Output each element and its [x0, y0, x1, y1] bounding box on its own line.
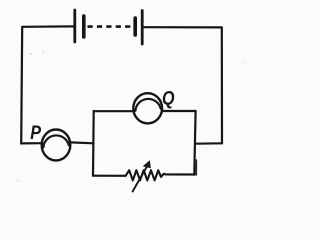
faint paper speckle [17, 180, 19, 182]
wire box top branch right [162, 110, 195, 112]
faint paper speckle [30, 53, 32, 55]
ammeter P inner top arc [43, 135, 68, 147]
battery left cell long plate [73, 10, 76, 42]
wire box bottom branch left [93, 175, 126, 177]
faint paper speckle [42, 52, 44, 54]
galvanometer Q circle [133, 93, 162, 123]
wire box left edge [92, 111, 95, 176]
battery right cell long plate [141, 11, 144, 45]
faint paper speckle [242, 61, 244, 63]
wire box top branch left [94, 110, 134, 112]
wire box right edge retrace stroke [195, 160, 197, 175]
wire meter P to box left [71, 141, 94, 144]
galvanometer Q inner top arc [135, 99, 160, 111]
battery left cell short plate [82, 16, 86, 37]
wire top-left segment [21, 26, 74, 143]
wire box right edge [194, 111, 195, 175]
wire box bottom branch right [161, 174, 194, 177]
svg-text:Q: Q [162, 88, 175, 109]
battery right cell short plate [133, 18, 137, 35]
ammeter P circle [42, 130, 71, 161]
rheostat arrowhead [143, 160, 151, 168]
wire bottom-left to meter P [21, 142, 42, 144]
rheostat zigzag [126, 170, 161, 180]
battery dashed link between cells [88, 25, 133, 28]
wire top-right segment [144, 27, 222, 143]
rheostat arrow shaft [133, 166, 148, 192]
svg-text:P: P [30, 123, 41, 144]
wire right connector to box [196, 142, 222, 145]
